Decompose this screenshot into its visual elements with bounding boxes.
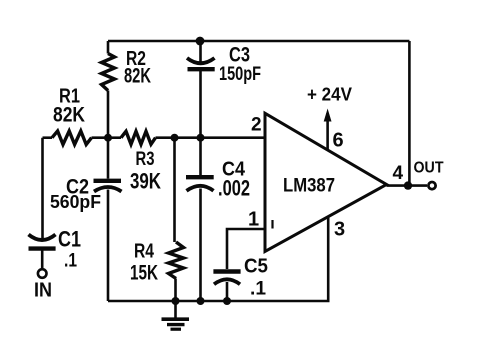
- svg-text:R3: R3: [136, 148, 155, 170]
- wire output (apex to terminal): [387, 184, 428, 187]
- label C1: [58, 227, 81, 252]
- value label 560pF: [50, 192, 101, 212]
- svg-text:C1: C1: [58, 227, 81, 252]
- resistor R2: [102, 41, 115, 138]
- label LM387: [283, 176, 335, 197]
- junction dot top rail / C3: [196, 37, 205, 46]
- ground: [162, 301, 190, 329]
- value label .1 (C5): [250, 279, 266, 300]
- label C5: [244, 256, 268, 278]
- svg-text:OUT: OUT: [414, 160, 444, 177]
- junction dot R4/ground on rail: [172, 297, 180, 305]
- svg-text:R4: R4: [134, 241, 155, 263]
- capacitor C5: [213, 272, 240, 302]
- svg-text:.1: .1: [64, 251, 77, 272]
- value label 39K: [130, 169, 161, 194]
- wire pin2 row (R3 node to op-amp input): [175, 136, 266, 139]
- svg-text:.002: .002: [218, 176, 250, 201]
- pin number 2: [251, 115, 262, 136]
- label C2: [66, 176, 89, 199]
- svg-text:15K: 15K: [130, 262, 158, 285]
- label + 24V: [307, 85, 352, 105]
- junction dot C4 on rail: [197, 297, 205, 305]
- value label 150pF: [219, 64, 261, 85]
- svg-text:.1: .1: [250, 279, 266, 300]
- junction dot C3/C4 branch: [197, 134, 205, 142]
- wire pin3 (op-amp bottom edge to rail): [327, 217, 330, 302]
- value label 15K: [130, 262, 158, 285]
- label R3: [136, 148, 155, 170]
- resistor R1: [43, 131, 109, 145]
- label OUT: [414, 160, 444, 177]
- svg-text:LM387: LM387: [283, 176, 335, 197]
- power +24V arrow (pin 6): [324, 109, 332, 151]
- node A junction R1/R2/C2/R3: [104, 134, 112, 142]
- wire bottom rail: [108, 300, 330, 303]
- pin number 3: [334, 219, 345, 241]
- svg-text:150pF: 150pF: [219, 64, 261, 85]
- capacitor C1: [29, 235, 56, 270]
- pin number 6: [333, 130, 344, 152]
- capacitor C3: [187, 41, 215, 138]
- terminal IN (open circle): [38, 269, 47, 278]
- resistor R4: [169, 138, 184, 301]
- pin number 4: [393, 163, 404, 184]
- svg-text:3: 3: [334, 219, 345, 241]
- wire pin1 (op-amp to C5 corner): [227, 229, 265, 269]
- value label 82K (R2): [124, 65, 151, 88]
- svg-text:82K: 82K: [124, 65, 151, 88]
- junction dot R4 branch: [171, 134, 179, 142]
- label R4: [134, 241, 155, 263]
- svg-text:IN: IN: [34, 280, 52, 302]
- wire top rail: [108, 40, 409, 43]
- wire input left vertical: [41, 138, 44, 238]
- label R2: [126, 48, 146, 70]
- junction dot C5 on rail: [223, 297, 231, 305]
- svg-text:2: 2: [251, 115, 262, 136]
- capacitor C2: [94, 138, 122, 301]
- value label .1 (C1): [64, 251, 77, 272]
- label C3: [229, 44, 250, 67]
- capacitor C4: [186, 138, 214, 301]
- svg-text:6: 6: [333, 130, 344, 152]
- label IN: [34, 280, 52, 302]
- pin 1 tick inside op-amp: [271, 220, 273, 229]
- pin number 1: [248, 209, 259, 231]
- label C4: [222, 159, 246, 181]
- value label .002: [218, 176, 250, 201]
- terminal OUT (open circle): [428, 182, 435, 189]
- svg-text:560pF: 560pF: [50, 192, 101, 212]
- svg-text:C5: C5: [244, 256, 268, 278]
- wire right vertical (top rail to output node): [408, 41, 411, 186]
- op-amp U1 LM387 triangle: [265, 113, 387, 251]
- label R1: [59, 86, 80, 108]
- value label 82K (R1): [53, 104, 85, 127]
- resistor R3: [108, 131, 175, 144]
- svg-text:+ 24V: + 24V: [307, 85, 352, 105]
- junction dot output: [404, 181, 412, 189]
- svg-text:39K: 39K: [130, 169, 161, 194]
- svg-text:4: 4: [393, 163, 404, 184]
- svg-text:1: 1: [248, 209, 259, 231]
- svg-text:82K: 82K: [53, 104, 85, 127]
